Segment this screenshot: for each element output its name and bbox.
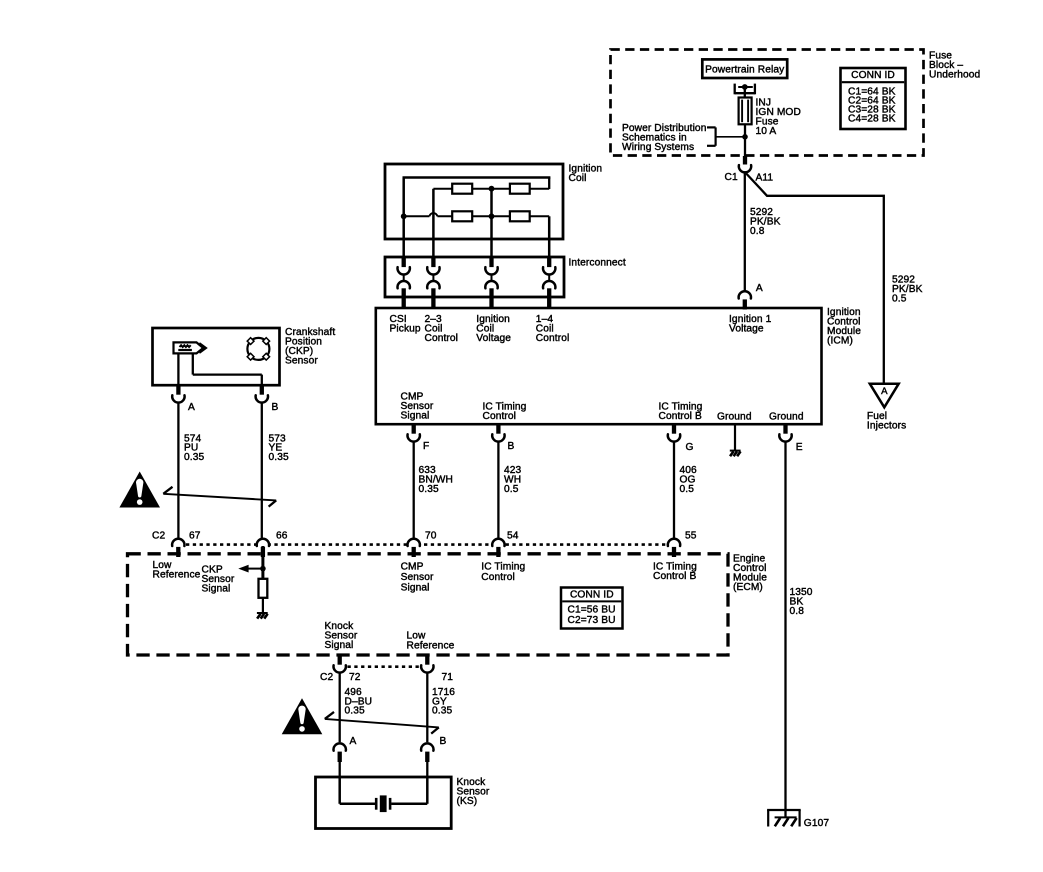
svg-text:Reference: Reference	[153, 569, 201, 580]
svg-text:E: E	[796, 442, 803, 453]
crankshaft position sensor box B1	[153, 328, 280, 385]
coil wire 3 voltage vertical	[489, 186, 495, 257]
svg-text:Coil: Coil	[569, 173, 587, 184]
svg-text:10 A: 10 A	[756, 126, 777, 137]
connector ECM pin 67	[172, 539, 184, 557]
ignition control module box U1	[376, 308, 822, 424]
svg-text:Control: Control	[425, 333, 459, 344]
svg-text:Control B: Control B	[659, 411, 702, 422]
label Interconnect	[569, 258, 626, 269]
knock sensor box B2	[316, 777, 452, 829]
resistor R CKP pull	[259, 579, 268, 598]
wire 423 WH 0.5	[497, 442, 499, 539]
label CKP pin A	[188, 402, 195, 413]
svg-text:Control: Control	[481, 572, 515, 583]
label CSI Pickup	[390, 314, 421, 335]
connector pin B IC timing control	[492, 425, 504, 442]
label 66	[276, 531, 288, 542]
ECM internal CKP signal arrow	[238, 565, 265, 573]
twisted pair arrow CKP wires	[163, 487, 276, 507]
svg-text:Pickup: Pickup	[390, 324, 421, 335]
label C2 (knock row)	[320, 672, 333, 683]
wire branch to fuel injectors	[746, 174, 884, 384]
label INJ IGN MOD Fuse 10 A	[756, 97, 801, 137]
primary winding resistor 1-4 top	[510, 184, 530, 194]
svg-text:Control B: Control B	[653, 571, 696, 582]
svg-text:54: 54	[507, 531, 519, 542]
ECM internal ground symbol	[257, 613, 268, 619]
label IC Timing Control B (ECM)	[653, 561, 697, 582]
svg-text:70: 70	[425, 531, 437, 542]
svg-text:0.8: 0.8	[790, 606, 805, 617]
svg-text:A: A	[188, 402, 195, 413]
svg-text:Sensor: Sensor	[285, 356, 318, 367]
svg-text:Signal: Signal	[401, 583, 430, 594]
label A11	[756, 172, 774, 183]
svg-text:Underhood: Underhood	[929, 70, 981, 81]
label Ignition 1 Voltage	[729, 314, 772, 335]
coil top bus wire	[403, 176, 551, 178]
dotted connector row ECM bottom	[348, 665, 421, 668]
label 1350 BK 0.8	[790, 587, 813, 617]
label CMP Sensor Signal (ECM)	[401, 562, 434, 594]
fuse block underhood dashed box	[611, 50, 924, 156]
wire 633 BN/WH 0.35	[413, 442, 415, 539]
KS internal wires	[340, 777, 428, 804]
label KS pin B	[440, 736, 447, 747]
fuse F INJ IGN MOD 10A	[739, 98, 752, 125]
label 1-4 Coil Control	[536, 314, 570, 344]
label pin E	[796, 442, 803, 453]
labels C1=56 BU C2=73 BU	[568, 604, 616, 626]
twisted pair arrow knock wires	[325, 712, 439, 734]
label 55	[685, 531, 697, 542]
dotted connector row ECM top	[186, 543, 668, 546]
label 70	[425, 531, 437, 542]
wire 406 OG 0.5	[673, 442, 675, 539]
label 5292 PK/BK 0.5	[892, 275, 923, 305]
wire 5292 PK/BK 0.8 down to ICM pin A	[744, 171, 746, 291]
svg-text:Control: Control	[536, 333, 570, 344]
conn id table ECM	[561, 588, 623, 629]
svg-text:B: B	[440, 736, 447, 747]
svg-text:C1=56 BU: C1=56 BU	[568, 604, 616, 615]
labels C1=64 BK C2=64 BK C3=28 BK C4=28 BK	[848, 86, 896, 124]
primary winding resistor 2-3 bottom	[452, 211, 472, 221]
primary winding resistor 1-4 bottom	[510, 211, 530, 221]
interconnect pair wire 4 stub to ICM	[547, 297, 551, 309]
ICM ground wire internal	[734, 425, 736, 450]
svg-text:Voltage: Voltage	[729, 324, 764, 335]
label 1716 GY 0.35	[432, 687, 455, 717]
label Ground 2	[769, 411, 804, 422]
svg-text:C2: C2	[152, 531, 165, 542]
svg-text:F: F	[423, 441, 429, 452]
svg-text:Sensor: Sensor	[401, 572, 434, 583]
connector ECM pin 55	[668, 539, 680, 557]
label Fuse Block - Underhood	[929, 51, 981, 81]
interconnect box	[385, 257, 564, 297]
coil wire 2 2-3 control vertical	[432, 189, 435, 257]
label IC Timing Control B (ICM)	[659, 401, 703, 422]
ignition coil box	[385, 164, 563, 239]
label Powertrain Relay	[705, 65, 785, 76]
wire 1716 GY 0.35	[426, 673, 428, 743]
svg-text:IC Timing: IC Timing	[481, 562, 525, 573]
svg-text:Interconnect: Interconnect	[569, 258, 626, 269]
label Fuel Injectors	[867, 411, 906, 432]
label Knock Sensor (KS)	[457, 777, 490, 807]
svg-text:0.5: 0.5	[680, 484, 695, 495]
svg-text:A: A	[881, 386, 888, 397]
label CKP Sensor Signal (ECM)	[202, 564, 235, 594]
svg-text:(ECM): (ECM)	[733, 582, 763, 593]
connector CKP pin A	[172, 386, 184, 403]
label 633 BN/WH 0.35	[419, 465, 453, 495]
svg-text:Ground: Ground	[769, 411, 804, 422]
label Ground 1	[717, 411, 752, 422]
svg-text:0.35: 0.35	[419, 484, 439, 495]
coil right drop to row2	[548, 178, 550, 190]
connector pin G IC timing control B	[668, 425, 680, 442]
label G107	[804, 818, 830, 829]
svg-text:C1: C1	[725, 172, 738, 183]
label Ignition Coil	[569, 164, 603, 185]
connector pin E ground	[779, 425, 791, 442]
connector pin F CMP sensor signal	[408, 425, 420, 442]
svg-text:0.8: 0.8	[750, 226, 765, 237]
label 54	[507, 531, 519, 542]
label CKP pin B	[272, 402, 279, 413]
label Low Reference (ECM)	[153, 560, 201, 581]
coil row2 wire	[433, 188, 549, 190]
fuel injectors off-page triangle A	[870, 384, 899, 408]
CKP reluctor wheel symbol	[247, 338, 269, 360]
connector KS pin A	[334, 743, 346, 762]
connector ECM pin 72 C2	[334, 656, 346, 673]
svg-text:B: B	[272, 402, 279, 413]
label CMP Sensor Signal (ICM)	[401, 392, 434, 422]
svg-text:0.35: 0.35	[432, 706, 452, 717]
wire 573 YE 0.35	[261, 403, 263, 539]
svg-text:Reference: Reference	[407, 640, 455, 651]
connector ECM pin 71	[421, 656, 433, 673]
label IC Timing Control (ICM)	[483, 401, 527, 422]
label 72	[349, 672, 361, 683]
label pin A	[756, 283, 763, 294]
resistor to ground wire	[262, 598, 264, 613]
label C2 (ECM top row)	[152, 531, 165, 542]
connector CKP pin B	[256, 386, 268, 403]
primary winding resistor 2-3 top	[452, 184, 472, 194]
coil row3 wire with hop over wire2	[403, 213, 550, 216]
connector C1 pin A11	[739, 156, 751, 172]
interconnect pair wire 4	[543, 257, 555, 298]
relay contact symbol	[735, 84, 755, 95]
svg-text:(ICM): (ICM)	[827, 335, 853, 346]
svg-text:G107: G107	[804, 818, 830, 829]
warning triangle knock circuit	[282, 698, 323, 734]
relay K powertrain relay label box	[702, 59, 787, 78]
label Crankshaft Position (CKP) Sensor	[285, 327, 335, 367]
CKP internal wire A	[177, 354, 179, 386]
connector ECM pin 70	[408, 539, 420, 557]
label 574 PU 0.35	[184, 433, 204, 463]
label Engine Control Module (ECM)	[733, 554, 767, 594]
svg-text:Ground: Ground	[717, 411, 752, 422]
connector ECM pin 54	[492, 539, 504, 557]
bracket to power distribution note	[707, 127, 745, 145]
warning triangle CKP circuit	[119, 472, 160, 508]
label 71	[442, 672, 454, 683]
label Low Reference knock (ECM)	[407, 631, 455, 652]
svg-text:Powertrain Relay: Powertrain Relay	[705, 65, 785, 76]
svg-text:0.35: 0.35	[184, 452, 204, 463]
svg-text:0.5: 0.5	[504, 484, 519, 495]
ICM case ground symbol	[730, 451, 741, 457]
svg-text:(KS): (KS)	[457, 796, 478, 807]
CKP internal wire B	[193, 354, 262, 386]
interconnect pair wire 2 stub to ICM	[431, 297, 435, 309]
svg-text:CONN ID: CONN ID	[851, 70, 895, 81]
label 406 OG 0.5	[680, 465, 698, 495]
svg-text:Signal: Signal	[202, 584, 231, 595]
svg-text:Signal: Signal	[325, 640, 354, 651]
svg-text:CONN ID: CONN ID	[570, 590, 614, 601]
svg-text:C2: C2	[320, 672, 333, 683]
label CONN ID	[851, 70, 895, 81]
svg-text:72: 72	[349, 672, 361, 683]
label IC Timing Control (ECM)	[481, 562, 525, 583]
coil wire 1 CSI vertical	[401, 178, 407, 258]
wire 1350 BK 0.8 to G107	[784, 442, 786, 817]
svg-text:A: A	[350, 736, 357, 747]
interconnect pair wire 3 stub to ICM	[489, 297, 493, 309]
label Ignition Control Module (ICM)	[827, 307, 861, 347]
label pin B	[508, 441, 515, 452]
svg-text:66: 66	[276, 531, 288, 542]
interconnect pair wire 2	[427, 257, 439, 298]
wire into KS box A	[339, 761, 341, 779]
label KS pin A	[350, 736, 357, 747]
label A in triangle	[881, 386, 888, 397]
label CONN ID (ECM)	[570, 590, 614, 601]
wire fuse to connector C1	[742, 124, 748, 156]
svg-text:A: A	[756, 283, 763, 294]
label Power Distribution Schematics in Wiring Systems	[622, 123, 706, 153]
svg-text:71: 71	[442, 672, 454, 683]
interconnect pair wire 1	[398, 257, 410, 298]
wire 574 PU 0.35	[177, 403, 179, 539]
svg-text:55: 55	[685, 531, 697, 542]
svg-text:A11: A11	[756, 172, 774, 183]
svg-text:C4=28 BK: C4=28 BK	[848, 114, 896, 125]
interconnect pair wire 1 stub to ICM	[402, 297, 406, 309]
connector pin A into ICM	[739, 291, 751, 309]
svg-text:Control: Control	[483, 411, 517, 422]
svg-text:C2=73 BU: C2=73 BU	[568, 615, 616, 626]
svg-text:G: G	[686, 442, 694, 453]
svg-text:0.35: 0.35	[269, 452, 289, 463]
svg-text:Wiring Systems: Wiring Systems	[622, 142, 694, 153]
conn id table fuse block	[841, 68, 906, 129]
svg-text:B: B	[508, 441, 515, 452]
connector KS pin B	[421, 743, 433, 762]
ECM internal wire to resistor	[261, 546, 264, 579]
label 496 D-BU 0.35	[345, 687, 373, 717]
label 2-3 Coil Control	[425, 314, 459, 344]
svg-text:67: 67	[189, 531, 201, 542]
svg-text:0.35: 0.35	[345, 706, 365, 717]
coil wire 4 1-4 control vertical	[548, 216, 551, 257]
label 67	[189, 531, 201, 542]
label C1	[725, 172, 738, 183]
wire into KS box B	[426, 761, 428, 779]
CKP pickup coil symbol	[174, 342, 206, 353]
connector ECM pin 66	[257, 539, 269, 557]
svg-text:CMP: CMP	[401, 562, 424, 573]
label pin F	[423, 441, 429, 452]
svg-text:0.5: 0.5	[892, 294, 907, 305]
label Ignition Coil Voltage	[476, 314, 511, 344]
piezo element symbol	[376, 795, 390, 812]
svg-text:Injectors: Injectors	[867, 421, 906, 432]
label 423 WH 0.5	[504, 465, 522, 495]
ground G107 symbol	[767, 810, 801, 827]
label Knock Sensor Signal (ECM)	[325, 621, 358, 651]
label pin G	[686, 442, 694, 453]
svg-text:Voltage: Voltage	[476, 333, 511, 344]
svg-text:Signal: Signal	[401, 411, 430, 422]
label 5292 PK/BK 0.8	[750, 207, 781, 237]
wire relay to fuse	[744, 87, 746, 98]
interconnect pair wire 3	[485, 257, 497, 298]
wire 496 D-BU 0.35	[339, 673, 341, 743]
label 573 YE 0.35	[269, 433, 289, 463]
engine control module dashed box U2	[128, 554, 729, 655]
